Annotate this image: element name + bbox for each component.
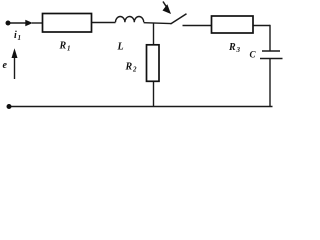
svg-text:L: L bbox=[117, 42, 124, 53]
svg-text:e: e bbox=[3, 60, 8, 71]
svg-text:2: 2 bbox=[132, 66, 137, 74]
svg-text:3: 3 bbox=[236, 46, 241, 54]
svg-text:R: R bbox=[59, 41, 67, 52]
svg-text:1: 1 bbox=[18, 34, 22, 42]
svg-text:R: R bbox=[228, 42, 236, 53]
svg-text:R: R bbox=[125, 62, 133, 73]
svg-text:1: 1 bbox=[67, 45, 71, 53]
svg-text:C: C bbox=[250, 50, 257, 60]
